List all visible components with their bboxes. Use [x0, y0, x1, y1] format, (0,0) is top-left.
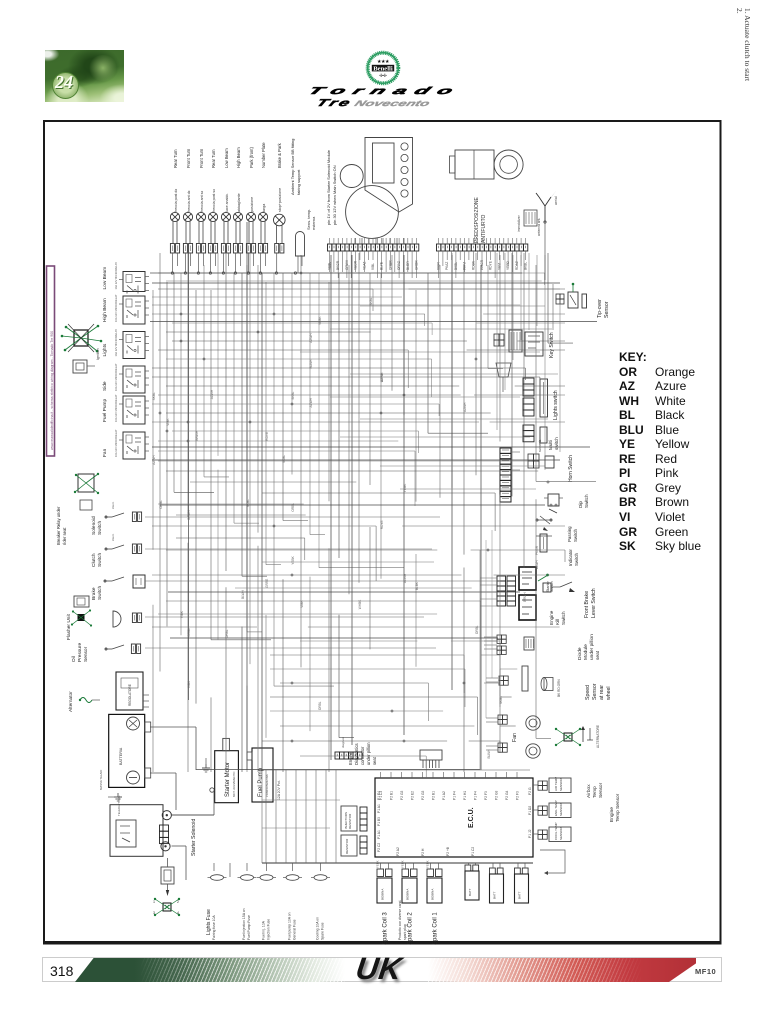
svg-text:Speed: Speed	[585, 685, 591, 700]
svg-text:AZWH: AZWH	[463, 402, 467, 412]
svg-text:Flasher Unit: Flasher Unit	[66, 613, 72, 640]
svg-text:SKBL: SKBL	[282, 455, 286, 463]
svg-text:wheel: wheel	[606, 686, 612, 700]
svg-text:ORBL: ORBL	[291, 503, 295, 512]
svg-text:Engine: Engine	[549, 610, 554, 625]
svg-text:Brake & Park: Brake & Park	[277, 142, 282, 168]
svg-text:Multi: Multi	[548, 440, 553, 450]
svg-text:P2 F3: P2 F3	[516, 791, 520, 800]
svg-text:Spare Fuse: Spare Fuse	[321, 922, 325, 940]
svg-text:Clutch: Clutch	[91, 553, 97, 567]
svg-text:Low Beam: Low Beam	[224, 148, 229, 168]
svg-text:P1 A1: P1 A1	[377, 804, 381, 813]
svg-text:fairing support: fairing support	[296, 169, 301, 195]
svg-text:ORBL: ORBL	[318, 701, 322, 710]
svg-text:P1 F4: P1 F4	[453, 791, 457, 800]
svg-text:Horn Switch: Horn Switch	[568, 455, 574, 482]
svg-text:Dip: Dip	[578, 501, 583, 508]
svg-text:P1 B3: P1 B3	[377, 817, 381, 826]
svg-text:Sensor: Sensor	[604, 301, 610, 318]
svg-text:Switch: Switch	[574, 553, 579, 566]
svg-text:ORBL: ORBL	[187, 628, 191, 637]
svg-text:Ignition: Ignition	[96, 348, 100, 360]
svg-text:Switch: Switch	[97, 521, 103, 535]
svg-text:Injection Fuse: Injection Fuse	[267, 919, 271, 940]
svg-text:COOL TEMP: COOL TEMP	[554, 822, 558, 840]
svg-text:PKGR: PKGR	[535, 545, 539, 555]
svg-text:Switch: Switch	[584, 494, 589, 508]
svg-text:Alternator: Alternator	[68, 691, 74, 712]
svg-text:Passing: Passing	[567, 526, 572, 542]
svg-text:REGOLATORE: REGOLATORE	[128, 684, 132, 706]
svg-text:P2 H: P2 H	[421, 848, 425, 856]
svg-text:Starter Solenoid: Starter Solenoid	[191, 819, 197, 856]
svg-text:suoneria: suoneria	[538, 440, 542, 452]
svg-text:luce anabb.: luce anabb.	[225, 193, 229, 212]
svg-text:AZWH: AZWH	[152, 455, 156, 465]
svg-text:Airbox: Airbox	[586, 784, 592, 798]
svg-text:Module: Module	[583, 644, 589, 660]
svg-text:YEBK: YEBK	[376, 860, 380, 868]
svg-text:freccia post dx: freccia post dx	[174, 189, 178, 212]
svg-text:SKBL: SKBL	[369, 297, 373, 305]
svg-text:VIBK: VIBK	[166, 418, 170, 426]
svg-text:Oil: Oil	[71, 656, 77, 662]
svg-text:YEBK: YEBK	[401, 860, 405, 868]
svg-text:P1 A1: P1 A1	[377, 830, 381, 839]
svg-text:Fuel Pump: Fuel Pump	[258, 767, 264, 797]
svg-text:AZWH: AZWH	[380, 372, 384, 382]
svg-text:Lights switch: Lights switch	[553, 390, 559, 420]
svg-text:AZWH: AZWH	[309, 397, 313, 407]
svg-text:WHBK: WHBK	[358, 599, 362, 609]
svg-text:Fuel inj. 10A: Fuel inj. 10A	[262, 920, 266, 940]
svg-text:BATT: BATT	[468, 888, 472, 896]
svg-text:BK RD GRN: BK RD GRN	[557, 679, 561, 697]
svg-text:BOBINA: BOBINA	[381, 889, 385, 900]
svg-text:E.C.U.: E.C.U.	[468, 807, 475, 828]
svg-text:POMPA BENZINA: POMPA BENZINA	[265, 774, 269, 797]
svg-text:Front Turn: Front Turn	[199, 148, 204, 168]
svg-text:P2 G4: P2 G4	[505, 790, 509, 800]
svg-text:MOT. AVVIAMENTO: MOT. AVVIAMENTO	[232, 771, 236, 797]
svg-text:RDYE: RDYE	[380, 520, 384, 529]
svg-text:High Beam: High Beam	[236, 147, 241, 168]
svg-text:10A 12V MICRORELAY: 10A 12V MICRORELAY	[114, 294, 118, 322]
svg-text:spark plug: spark plug	[403, 924, 407, 940]
svg-text:Brake: Brake	[91, 587, 97, 600]
svg-text:P2 G3: P2 G3	[495, 790, 499, 800]
svg-text:Pressure: Pressure	[77, 642, 83, 662]
svg-text:P2 C2: P2 C2	[377, 843, 381, 852]
svg-text:AZWH: AZWH	[403, 573, 407, 583]
svg-text:Indicator: Indicator	[568, 549, 573, 566]
svg-text:abbagliante: abbagliante	[237, 193, 241, 212]
svg-text:P1 D2: P1 D2	[528, 806, 532, 815]
svg-text:under pillion: under pillion	[589, 634, 595, 660]
svg-text:Spark Coil 1: Spark Coil 1	[433, 912, 439, 945]
svg-text:SENSOR: SENSOR	[559, 777, 563, 791]
svg-text:BOBINA: BOBINA	[406, 889, 410, 900]
svg-text:under pillion: under pillion	[366, 742, 371, 765]
svg-text:connector: connector	[360, 746, 365, 765]
svg-text:P1 E4: P1 E4	[377, 791, 381, 800]
svg-text:Front Turn: Front Turn	[186, 148, 191, 168]
svg-text:Spark Coil 2: Spark Coil 2	[408, 912, 414, 945]
svg-text:Side: Side	[102, 381, 108, 391]
svg-text:YEBK: YEBK	[403, 483, 407, 492]
svg-text:at rear: at rear	[599, 685, 605, 700]
svg-text:BLWH: BLWH	[241, 589, 245, 599]
svg-text:ORBL: ORBL	[225, 629, 229, 638]
svg-text:P2 G: P2 G	[528, 787, 532, 795]
svg-text:1: 1	[153, 900, 155, 904]
svg-text:Prodotto con diverse cand.: Prodotto con diverse cand.	[398, 900, 402, 940]
svg-text:12A 20V Pot.: 12A 20V Pot.	[277, 780, 281, 800]
svg-text:rider seat: rider seat	[62, 527, 67, 545]
svg-text:AZWH: AZWH	[309, 333, 313, 343]
svg-text:Fuel Pump Fuse: Fuel Pump Fuse	[247, 915, 251, 940]
svg-text:10A 12V MICRORELAY: 10A 12V MICRORELAY	[114, 363, 118, 391]
svg-text:pin 30 12V when Main Switch ON: pin 30 12V when Main Switch ON	[332, 165, 337, 225]
svg-text:3: 3	[153, 911, 155, 915]
svg-text:Number Plate: Number Plate	[261, 142, 266, 168]
svg-text:P1 F4: P1 F4	[474, 791, 478, 800]
svg-text:VIBL: VIBL	[371, 263, 375, 270]
svg-text:AZWH: AZWH	[210, 389, 214, 399]
svg-text:P2 F3: P2 F3	[484, 791, 488, 800]
svg-text:Temp: Temp	[592, 786, 598, 798]
svg-text:ENG TEMP: ENG TEMP	[554, 800, 558, 816]
svg-text:YEBK: YEBK	[291, 555, 295, 564]
svg-text:Rear Turn: Rear Turn	[173, 149, 178, 168]
svg-text:Sensor: Sensor	[598, 782, 604, 798]
svg-text:RESISTOR: RESISTOR	[348, 813, 352, 829]
svg-text:Fan: Fan	[512, 733, 518, 742]
svg-text:interr.: interr.	[111, 501, 115, 509]
svg-text:Sensor: Sensor	[83, 646, 89, 662]
svg-text:BRWH: BRWH	[523, 592, 527, 602]
svg-text:P2 E2: P2 E2	[411, 791, 415, 800]
svg-text:SKBL: SKBL	[152, 392, 156, 400]
svg-text:Kill: Kill	[555, 619, 560, 625]
svg-text:Ambient Temp Sensor BB fitting: Ambient Temp Sensor BB fitting	[290, 139, 295, 195]
svg-text:esterna: esterna	[311, 216, 316, 230]
svg-text:posizione: posizione	[250, 197, 254, 212]
svg-text:Front Brake: Front Brake	[584, 591, 590, 618]
svg-text:diagnosi: diagnosi	[341, 736, 345, 748]
svg-text:BLBK: BLBK	[415, 581, 419, 590]
svg-text:MASSA TELAIO: MASSA TELAIO	[99, 769, 103, 790]
svg-text:ORBL: ORBL	[159, 500, 163, 509]
svg-text:Switch: Switch	[561, 611, 566, 625]
svg-text:SKBL: SKBL	[291, 391, 295, 399]
svg-text:BOBINA: BOBINA	[431, 889, 435, 900]
svg-text:freccia post sx: freccia post sx	[212, 189, 216, 212]
svg-text:Lever Switch: Lever Switch	[591, 588, 597, 618]
svg-text:2: 2	[177, 900, 179, 904]
svg-text:YEBK: YEBK	[426, 860, 430, 868]
svg-text:Switch: Switch	[550, 581, 554, 592]
svg-text:SKBL: SKBL	[246, 499, 250, 507]
svg-text:Diode: Diode	[577, 647, 583, 660]
svg-text:BRWH: BRWH	[187, 509, 191, 519]
svg-text:VIBK: VIBK	[180, 610, 184, 618]
svg-text:Fairing fuse 10A: Fairing fuse 10A	[212, 915, 216, 940]
svg-text:BRWH: BRWH	[195, 430, 199, 440]
svg-text:aerial: aerial	[554, 196, 558, 205]
svg-text:High Beam: High Beam	[102, 298, 108, 322]
svg-text:TELERUTTORE: TELERUTTORE	[117, 795, 121, 816]
svg-text:RESISTOR: RESISTOR	[345, 838, 349, 854]
svg-text:BLWH: BLWH	[309, 359, 313, 369]
svg-text:P1 H1: P1 H1	[463, 791, 467, 800]
svg-text:P2 B1: P2 B1	[432, 791, 436, 800]
svg-text:Fuel injection 15A on: Fuel injection 15A on	[242, 908, 246, 940]
svg-text:VIBK: VIBK	[300, 600, 304, 608]
svg-text:10A 12V MICRORELAY: 10A 12V MICRORELAY	[114, 329, 118, 357]
svg-text:Diagnostics: Diagnostics	[354, 743, 359, 765]
svg-text:Lights Fuse: Lights Fuse	[206, 909, 212, 935]
svg-text:RDYE: RDYE	[489, 261, 493, 270]
svg-text:SKBL: SKBL	[499, 696, 503, 704]
svg-text:Switch: Switch	[573, 529, 578, 542]
svg-text:P1 A2: P1 A2	[442, 791, 446, 800]
svg-text:Fuel Pump: Fuel Pump	[102, 398, 108, 422]
svg-text:10A 12V MICRORELAY: 10A 12V MICRORELAY	[114, 429, 118, 457]
svg-text:Park (front): Park (front)	[249, 146, 254, 168]
svg-text:PKAZ: PKAZ	[445, 262, 449, 270]
svg-text:Temp Sensor: Temp Sensor	[615, 793, 621, 822]
svg-text:BATTERIA: BATTERIA	[119, 747, 123, 765]
svg-text:General Fuse: General Fuse	[293, 919, 297, 940]
svg-text:P2 +B: P2 +B	[446, 846, 450, 856]
svg-text:PREDISPOSIZIONE: PREDISPOSIZIONE	[474, 196, 480, 243]
svg-text:Switch: Switch	[97, 586, 103, 600]
svg-text:pin 1V of 2V from Starter Sole: pin 1V of 2V from Starter Solenoid Modul…	[326, 149, 331, 225]
svg-text:P2 G3: P2 G3	[400, 790, 404, 800]
svg-text:freccia ant sx: freccia ant sx	[200, 191, 204, 212]
svg-text:SENSOR: SENSOR	[559, 802, 563, 816]
svg-text:BATT: BATT	[493, 891, 497, 899]
svg-text:ORBL: ORBL	[475, 625, 479, 634]
svg-text:BLWH: BLWH	[535, 560, 539, 570]
svg-text:4: 4	[177, 911, 179, 915]
svg-text:Rear Turn: Rear Turn	[211, 149, 216, 168]
svg-text:stop+posizione: stop+posizione	[278, 188, 282, 212]
svg-text:Spark Coil 3: Spark Coil 3	[383, 912, 389, 945]
svg-text:ALTERNATORE: ALTERNATORE	[596, 725, 600, 748]
svg-text:VIBK: VIBK	[187, 680, 191, 688]
svg-text:interr.: interr.	[111, 533, 115, 541]
svg-text:YEVI: YEVI	[497, 263, 501, 270]
svg-text:Fan: Fan	[102, 448, 108, 457]
svg-text:Tip-over: Tip-over	[597, 299, 603, 318]
svg-text:Fuel pump 10A on: Fuel pump 10A on	[288, 912, 292, 940]
svg-text:www.manualideofficina.it - sch: www.manualideofficina.it - schema elettr…	[50, 331, 54, 450]
svg-text:Sensor: Sensor	[592, 683, 598, 700]
svg-text:Cooling 10A on: Cooling 10A on	[316, 917, 320, 940]
svg-text:RDYE: RDYE	[265, 432, 269, 441]
svg-text:AIR TEMP: AIR TEMP	[554, 777, 558, 791]
svg-text:immobilizer: immobilizer	[517, 214, 521, 232]
svg-text:10A 12V MICRORELAY: 10A 12V MICRORELAY	[114, 262, 118, 290]
svg-text:seat: seat	[372, 756, 377, 765]
svg-text:GRRE: GRRE	[265, 579, 269, 588]
svg-text:P1 C2: P1 C2	[471, 847, 475, 856]
svg-text:P1 J2: P1 J2	[528, 829, 532, 838]
svg-text:P2 G3: P2 G3	[421, 790, 425, 800]
svg-text:seat: seat	[595, 650, 601, 660]
svg-text:YEBK: YEBK	[318, 316, 322, 325]
svg-text:BATT: BATT	[518, 891, 522, 899]
svg-text:Key Switch: Key Switch	[549, 332, 555, 358]
svg-text:Low Beam: Low Beam	[102, 267, 108, 290]
svg-text:Solenoid: Solenoid	[91, 516, 97, 535]
svg-text:Engine: Engine	[609, 807, 615, 822]
svg-text:targa: targa	[262, 204, 266, 212]
svg-text:SENSOR: SENSOR	[559, 826, 563, 840]
svg-text:P2 A2: P2 A2	[396, 847, 400, 856]
svg-text:P2 B1: P2 B1	[390, 791, 394, 800]
svg-text:freccia ant dx: freccia ant dx	[187, 190, 191, 212]
svg-text:Breaker Relay under: Breaker Relay under	[56, 506, 61, 545]
svg-text:10A 12V MICRORELAY: 10A 12V MICRORELAY	[114, 394, 118, 422]
svg-text:switch: switch	[554, 437, 559, 450]
svg-text:Engine: Engine	[348, 751, 353, 765]
svg-text:antenna ant.: antenna ant.	[537, 218, 541, 236]
svg-text:Switch: Switch	[97, 553, 103, 567]
svg-text:Lights: Lights	[102, 343, 108, 356]
